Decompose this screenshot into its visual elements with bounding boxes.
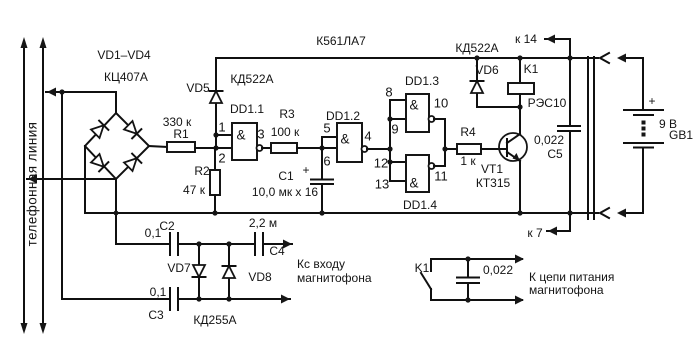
svg-text:+: + (648, 94, 655, 108)
svg-text:GB1: GB1 (669, 128, 693, 142)
svg-text:VD1–VD4: VD1–VD4 (97, 48, 151, 62)
svg-text:КД522А: КД522А (230, 72, 273, 86)
diode VD5 with branch to +rail (186, 58, 222, 148)
battery GB1 (624, 94, 693, 148)
diode VD7 (167, 241, 205, 301)
ground rail (bottom) (85, 212, 598, 214)
svg-text:КД255А: КД255А (193, 313, 236, 327)
wire DD1.2 out to DD1.3/DD1.4 inputs (367, 100, 406, 181)
diode VD4 (bottom-right edge) (124, 154, 142, 172)
resistor R2 (183, 148, 220, 213)
svg-text:12: 12 (374, 156, 388, 171)
svg-text:2,2 м: 2,2 м (249, 216, 277, 230)
svg-text:0,022: 0,022 (534, 133, 564, 147)
svg-text:DD1.1: DD1.1 (230, 102, 264, 116)
svg-text:С2: С2 (159, 219, 175, 233)
svg-text:VD7: VD7 (167, 261, 191, 275)
svg-text:100 к: 100 к (271, 125, 300, 139)
svg-text:КЦ407А: КЦ407А (104, 70, 148, 84)
battery feed bottom (617, 149, 643, 218)
relay contact K1 (bottom circuit) (415, 255, 524, 305)
wire: bridge bottom vertex down to C2 (114, 179, 170, 244)
wire R4 to VT1 base (481, 148, 507, 150)
resistor R4 (457, 125, 481, 168)
diode VD3 (bottom-left edge) (91, 154, 109, 172)
svg-text:к 14: к 14 (515, 32, 537, 46)
svg-text:Кс входу: Кс входу (297, 257, 345, 271)
wire: gate outputs joined (434, 119, 457, 166)
connector open arrow top (600, 53, 609, 63)
svg-text:11: 11 (434, 169, 448, 184)
capacitor 0,022 (bottom circuit) (457, 256, 513, 302)
svg-text:+: + (302, 163, 309, 177)
svg-text:0,1: 0,1 (150, 285, 167, 299)
svg-text:R2: R2 (194, 164, 210, 178)
svg-text:VD5: VD5 (186, 81, 210, 95)
transistor VT1 (476, 107, 527, 216)
telephone line wire 2 (40, 37, 47, 334)
capacitor C4 (249, 216, 292, 258)
svg-text:РЭС10: РЭС10 (528, 96, 567, 110)
svg-text:R1: R1 (173, 127, 189, 141)
svg-text:VT1: VT1 (481, 162, 503, 176)
svg-text:10,0 мк x 16: 10,0 мк x 16 (252, 185, 319, 199)
svg-text:магнитофона: магнитофона (297, 271, 372, 285)
svg-text:С5: С5 (547, 147, 563, 161)
wire: bridge left vertex to ground rail (84, 146, 86, 213)
telephone line wire 1 (left) (21, 37, 28, 334)
capacitor C5 (534, 55, 580, 215)
svg-text:КТ315: КТ315 (476, 176, 511, 190)
capacitor C3 (148, 285, 290, 322)
svg-text:8: 8 (385, 85, 392, 100)
wire DD1.1 out to R3 (262, 147, 271, 149)
wire: line1 to bridge bottom (27, 175, 116, 184)
diode VD8 (223, 241, 272, 301)
svg-text:КД522А: КД522А (455, 41, 498, 55)
resistor R1 (163, 115, 195, 152)
svg-text:С4: С4 (269, 244, 285, 258)
capacitor C2 (145, 219, 255, 255)
svg-text:R4: R4 (460, 125, 476, 139)
svg-text:К цепи питания: К цепи питания (529, 270, 614, 284)
+supply rail (top) (216, 57, 598, 59)
svg-text:0,1: 0,1 (145, 226, 162, 240)
svg-text:DD1.3: DD1.3 (405, 74, 439, 88)
gate DD1.1 (NAND К561ЛА7) (216, 102, 264, 160)
svg-text:к 7: к 7 (527, 226, 543, 240)
connector double lines (588, 57, 594, 219)
wire: line2 to bridge top (node) (46, 88, 116, 114)
wire: bridge right to R1 (149, 146, 167, 147)
junction dot (59, 89, 64, 94)
svg-text:K1: K1 (415, 261, 430, 275)
connector open arrow bottom (600, 208, 609, 218)
relay coil K1 (508, 55, 567, 110)
junction node: R3 / C1 / DD1.2 (319, 145, 324, 150)
node dots at VD5/R2 column (213, 145, 218, 150)
svg-text:0,022: 0,022 (483, 263, 513, 277)
svg-text:5: 5 (323, 121, 330, 136)
diode bridge VD1-VD4 frame (85, 113, 149, 179)
svg-text:&: & (409, 176, 418, 191)
wire R1 to DD1.1 (195, 147, 232, 149)
к 14 tap (515, 32, 570, 58)
svg-text:&: & (409, 98, 418, 113)
gate DD1.4 (403, 155, 437, 212)
svg-text:VD6: VD6 (475, 63, 499, 77)
svg-text:47 к: 47 к (183, 183, 206, 197)
к 7 tap (527, 213, 570, 240)
svg-text:1: 1 (218, 120, 225, 135)
diode VD6 (471, 55, 523, 109)
gate DD1.2 (322, 109, 368, 162)
svg-text:С3: С3 (148, 308, 164, 322)
svg-text:13: 13 (375, 177, 389, 192)
capacitor C1 (252, 148, 333, 216)
svg-text:DD1.4: DD1.4 (403, 198, 437, 212)
gate DD1.3 (405, 74, 439, 132)
svg-text:телефонная линия: телефонная линия (25, 122, 40, 247)
svg-text:K1: K1 (524, 62, 539, 76)
svg-text:К561ЛА7: К561ЛА7 (316, 34, 366, 48)
diode VD1 (top-left edge) (91, 121, 109, 139)
svg-text:&: & (236, 128, 245, 143)
wire R3 to DD1.2 (297, 147, 337, 149)
svg-text:&: & (340, 132, 349, 147)
svg-text:10: 10 (434, 96, 448, 111)
diode VD2 (top-right edge) (124, 121, 142, 139)
svg-text:R3: R3 (279, 107, 295, 121)
svg-text:1 к: 1 к (460, 154, 476, 168)
svg-text:9: 9 (391, 122, 398, 137)
svg-text:DD1.2: DD1.2 (326, 109, 360, 123)
svg-text:VD8: VD8 (248, 270, 272, 284)
svg-text:2: 2 (218, 151, 225, 166)
wire: riser from node to C3 (62, 92, 170, 299)
svg-text:6: 6 (323, 154, 330, 169)
resistor R3 (271, 107, 300, 153)
svg-text:С1: С1 (278, 169, 294, 183)
battery feed top (617, 54, 643, 111)
svg-text:3: 3 (257, 127, 264, 142)
svg-text:магнитофона: магнитофона (529, 283, 604, 297)
svg-text:4: 4 (364, 129, 371, 144)
